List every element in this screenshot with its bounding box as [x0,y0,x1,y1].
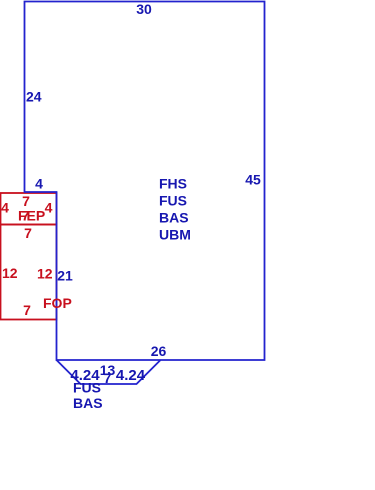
svg-text:FOP: FOP [43,295,72,311]
svg-text:45: 45 [245,172,261,188]
svg-text:24: 24 [26,89,42,105]
svg-text:4.24: 4.24 [116,367,146,384]
svg-text:12: 12 [2,265,18,281]
blue bay window trapezoid [57,360,161,384]
svg-text:26: 26 [151,343,167,359]
svg-text:7: 7 [23,302,31,318]
svg-text:BAS: BAS [73,395,103,411]
svg-text:FEP: FEP [18,208,45,224]
svg-text:BAS: BAS [159,210,189,226]
area labels FHS FUS BAS UBM [159,176,191,243]
blue main outline polygon [25,2,265,361]
svg-text:4: 4 [35,176,43,192]
svg-text:7: 7 [24,225,32,241]
svg-text:FUS: FUS [159,193,187,209]
svg-text:4: 4 [45,200,53,216]
svg-text:30: 30 [136,1,152,17]
svg-text:FHS: FHS [159,176,187,192]
svg-text:FUS: FUS [73,380,101,396]
svg-text:4: 4 [1,200,9,216]
red porch FOP rectangle [1,225,57,320]
svg-text:12: 12 [37,266,53,282]
red porch FEP rectangle [1,193,57,225]
svg-text:UBM: UBM [159,227,191,243]
svg-text:21: 21 [57,268,73,284]
svg-text:7: 7 [104,370,112,386]
